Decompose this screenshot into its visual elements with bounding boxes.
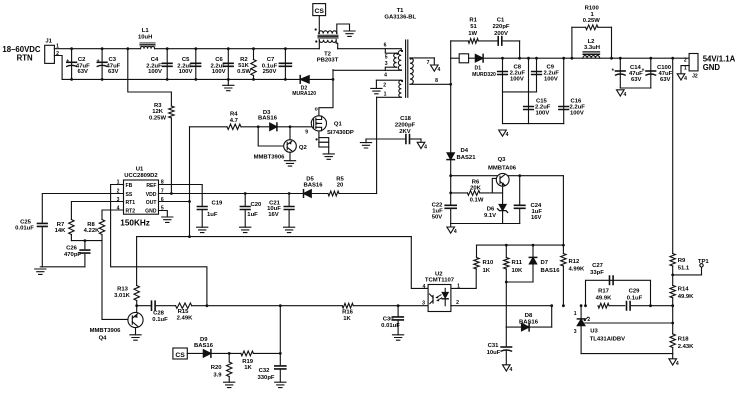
wire top input rail — [54, 48, 319, 50]
svg-text:BAS16: BAS16 — [194, 343, 214, 349]
capacitor C26 — [64, 241, 90, 267]
svg-text:20: 20 — [337, 183, 344, 189]
svg-text:C1: C1 — [497, 18, 505, 24]
transistor Q4 MMBT3906 — [90, 306, 143, 342]
test point TP1 — [671, 259, 709, 276]
svg-text:C27: C27 — [592, 263, 604, 269]
ground at T2 winding — [344, 31, 355, 36]
svg-text:49.9K: 49.9K — [596, 296, 612, 302]
svg-text:3: 3 — [574, 329, 577, 335]
svg-text:T1: T1 — [397, 8, 405, 14]
input label 18-60VDC RTN — [2, 45, 41, 63]
svg-text:REF: REF — [146, 183, 156, 189]
wire secondary supply line — [449, 174, 563, 177]
current-sense label CS bottom — [173, 348, 187, 359]
svg-text:1: 1 — [684, 65, 687, 71]
diode D7 BAS16 — [529, 245, 560, 282]
svg-text:R14: R14 — [678, 287, 690, 293]
ground at C21 — [284, 227, 295, 232]
ground at Q1 source — [323, 154, 334, 159]
shunt regulator U3 TL431AIDBV — [574, 304, 625, 353]
svg-text:1uF: 1uF — [207, 212, 218, 218]
wire R11 D7 bottoms — [505, 281, 533, 328]
svg-text:SI7430DP: SI7430DP — [327, 130, 354, 136]
resistor R18 — [670, 306, 694, 354]
svg-text:R100: R100 — [585, 6, 600, 12]
wire OUT to gate line — [190, 127, 228, 237]
capacitor C9 — [503, 57, 560, 92]
wire bottom return rail — [62, 78, 333, 80]
svg-text:R3: R3 — [154, 103, 162, 109]
capacitor C6 — [211, 47, 234, 81]
svg-text:D6: D6 — [487, 206, 495, 212]
current-sense label CS top — [313, 4, 326, 16]
svg-text:51.1: 51.1 — [678, 265, 690, 271]
svg-text:10uH: 10uH — [138, 35, 152, 41]
svg-text:2.2uF: 2.2uF — [535, 105, 551, 111]
diode D1 MURD320 — [451, 54, 689, 78]
ground at C32 — [275, 382, 286, 387]
svg-text:Q4: Q4 — [99, 336, 108, 342]
transformer T2 PB203T — [315, 24, 350, 64]
resistor R10 — [474, 245, 494, 274]
MOSFET Q1 SI7430DP — [311, 70, 354, 136]
svg-text:16V: 16V — [531, 215, 542, 221]
svg-text:+: + — [642, 68, 645, 74]
svg-text:BAS16: BAS16 — [541, 268, 561, 274]
svg-text:BAS16: BAS16 — [304, 183, 324, 189]
wire U1 RT1 to R7 — [71, 202, 123, 220]
svg-text:0.25W: 0.25W — [583, 18, 600, 24]
output label 54V/1.1A GND — [703, 55, 736, 73]
svg-text:4: 4 — [506, 132, 509, 138]
resistor R19 — [241, 351, 282, 371]
capacitor C31 — [487, 327, 512, 365]
svg-text:D1: D1 — [475, 65, 482, 71]
T1 secondary winding — [410, 58, 451, 85]
svg-text:C7: C7 — [267, 57, 275, 63]
svg-text:5: 5 — [385, 55, 388, 61]
resistor R4 — [227, 112, 241, 130]
ground net4 at J2 — [677, 74, 687, 82]
svg-text:51: 51 — [470, 24, 477, 30]
svg-text:BAS16: BAS16 — [258, 116, 278, 122]
svg-text:1K: 1K — [244, 365, 252, 371]
ground at R20 — [224, 382, 235, 387]
svg-text:3.3uH: 3.3uH — [584, 45, 600, 51]
wire D3 to Q1 gate — [277, 127, 312, 136]
svg-text:C31: C31 — [488, 343, 500, 349]
wire TL431 anode return — [581, 353, 673, 355]
svg-text:TL431AIDBV: TL431AIDBV — [590, 336, 625, 342]
svg-text:330pF: 330pF — [257, 375, 274, 381]
diode D8 BAS16 — [506, 304, 553, 331]
svg-text:1uF: 1uF — [247, 212, 258, 218]
resistor R6 — [449, 176, 502, 204]
capacitor C2 — [66, 47, 90, 81]
capacitor C19 — [197, 201, 223, 228]
svg-text:51K: 51K — [238, 63, 250, 69]
ground net4 at C18 right — [417, 139, 427, 150]
svg-text:4.99K: 4.99K — [569, 266, 585, 272]
svg-text:1uF: 1uF — [432, 208, 443, 214]
resistor R5 — [311, 176, 376, 196]
capacitor C7 — [262, 47, 292, 81]
wire U1 REF to C19 — [159, 185, 203, 207]
svg-text:U3: U3 — [590, 329, 598, 335]
svg-text:0.01uF: 0.01uF — [381, 323, 400, 329]
capacitor C18 — [366, 116, 421, 144]
svg-text:R8: R8 — [87, 222, 95, 228]
svg-text:C26: C26 — [66, 245, 78, 251]
wire primary ground bus — [40, 266, 85, 268]
svg-text:U1: U1 — [136, 166, 144, 172]
svg-text:9.1V: 9.1V — [484, 213, 496, 219]
ground at U1 GND — [162, 217, 173, 222]
svg-text:1: 1 — [384, 92, 387, 98]
ground at C19 — [197, 227, 208, 232]
resistor R9 — [670, 254, 690, 286]
svg-text:4: 4 — [623, 92, 626, 98]
svg-text:100V: 100V — [536, 111, 550, 117]
capacitor C1 — [492, 18, 509, 46]
svg-text:6: 6 — [161, 197, 164, 203]
wire R17 to C29 — [609, 305, 625, 307]
svg-text:150KHz: 150KHz — [120, 219, 150, 228]
svg-text:1K: 1K — [483, 268, 491, 274]
svg-text:100V: 100V — [148, 69, 162, 75]
transistor Q2 MMBT3906 — [254, 125, 308, 160]
wire Q2 base loop — [257, 125, 284, 146]
svg-text:3.01K: 3.01K — [114, 293, 130, 299]
wire output sense drop — [671, 57, 674, 254]
wire D9 to R19 — [212, 352, 241, 355]
wire J1 pin2 to bottom rail — [54, 56, 62, 80]
wire T1 pin8 to D1 anode and D4 — [449, 58, 452, 153]
svg-text:R20: R20 — [211, 365, 223, 371]
svg-text:4: 4 — [384, 73, 387, 79]
svg-text:R16: R16 — [342, 309, 354, 315]
wire R7 R8 bottoms — [71, 239, 102, 242]
diode D4 BAS21 — [447, 148, 476, 176]
svg-text:2.43K: 2.43K — [678, 344, 694, 350]
svg-text:C6: C6 — [215, 57, 223, 63]
svg-text:10uF: 10uF — [487, 350, 501, 356]
svg-text:Q1: Q1 — [334, 121, 343, 127]
ground at C25 bus — [35, 269, 46, 274]
svg-text:1: 1 — [591, 12, 595, 18]
svg-text:D7: D7 — [541, 260, 549, 266]
svg-text:T2: T2 — [324, 51, 332, 57]
capacitor C100 — [620, 57, 672, 88]
wire secondary bias rail — [477, 244, 565, 247]
capacitor C4 — [146, 47, 172, 81]
svg-text:Q3: Q3 — [498, 157, 507, 163]
svg-text:12K: 12K — [152, 109, 164, 115]
resistor R20 — [211, 353, 232, 382]
svg-text:R11: R11 — [512, 260, 523, 266]
wire TL431 ref to divider — [585, 322, 674, 325]
capacitor C32 — [257, 353, 285, 382]
ground at Q2 — [284, 161, 295, 166]
svg-text:3: 3 — [385, 61, 388, 67]
svg-text:VDD: VDD — [146, 192, 157, 198]
wire U1 SS to C25 — [42, 194, 123, 223]
svg-text:MMBT3906: MMBT3906 — [90, 328, 121, 334]
capacitor C20 — [240, 192, 262, 227]
svg-text:R10: R10 — [483, 260, 495, 266]
svg-text:100V: 100V — [212, 69, 226, 75]
capacitor C14 — [611, 57, 643, 88]
svg-text:+: + — [66, 59, 69, 65]
svg-text:C16: C16 — [571, 98, 583, 104]
svg-text:49.9K: 49.9K — [678, 294, 694, 300]
svg-text:C32: C32 — [259, 368, 271, 374]
svg-text:R17: R17 — [598, 288, 610, 294]
capacitor C24 — [515, 176, 543, 224]
svg-text:2: 2 — [383, 82, 386, 88]
svg-text:9: 9 — [305, 130, 308, 136]
T2 primary sense winding at Q1 source — [316, 131, 329, 154]
svg-text:C29: C29 — [629, 288, 641, 294]
svg-text:4: 4 — [509, 367, 512, 373]
T1 aux winding pins 2 1 — [376, 80, 403, 98]
resistor R1 — [468, 18, 478, 44]
svg-text:BAS21: BAS21 — [457, 155, 477, 161]
resistor R3 — [149, 103, 174, 195]
svg-text:2: 2 — [587, 317, 590, 323]
svg-text:RT2: RT2 — [126, 208, 136, 214]
wire CS node to FB line — [279, 306, 281, 354]
svg-text:33pF: 33pF — [590, 270, 604, 276]
resistor R8 — [84, 220, 105, 241]
svg-text:3: 3 — [117, 197, 120, 203]
resistor R13 — [114, 286, 139, 308]
svg-text:1: 1 — [574, 311, 577, 317]
svg-text:4: 4 — [437, 67, 440, 73]
svg-text:0.25W: 0.25W — [149, 115, 166, 121]
svg-text:SS: SS — [126, 192, 133, 198]
diode D2 MURA120 — [292, 76, 316, 97]
capacitor C16 — [503, 57, 586, 124]
ground net4 below C8 — [499, 130, 509, 138]
ground primary at C6 — [223, 79, 234, 90]
svg-text:4: 4 — [117, 206, 120, 212]
svg-text:100V: 100V — [570, 111, 584, 117]
svg-text:MMBTA06: MMBTA06 — [488, 165, 517, 171]
capacitor C21 — [267, 192, 294, 227]
optocoupler U2 TCMT1107 — [422, 271, 460, 311]
svg-text:4: 4 — [454, 229, 457, 235]
svg-text:16V: 16V — [268, 212, 279, 218]
svg-text:UCC2809D2: UCC2809D2 — [124, 173, 158, 179]
resistor R100 — [571, 6, 613, 60]
wire R3 startup feed from top rail — [126, 47, 171, 106]
svg-text:PB203T: PB203T — [317, 58, 339, 64]
ground at Q4 — [130, 335, 141, 340]
zener D6 9.1V — [484, 204, 508, 223]
svg-text:+: + — [611, 67, 614, 73]
svg-text:200V: 200V — [494, 31, 508, 37]
svg-text:R13: R13 — [117, 286, 129, 292]
svg-text:o: o — [315, 107, 318, 113]
svg-text:GND: GND — [145, 208, 157, 214]
wire U1 GND pin5 — [159, 211, 168, 218]
svg-text:C20: C20 — [251, 202, 263, 208]
svg-text:250V: 250V — [263, 69, 277, 75]
wire ramp to R13 — [136, 237, 138, 286]
svg-text:R6: R6 — [472, 179, 480, 185]
svg-text:J1: J1 — [45, 38, 52, 44]
svg-text:GA3136-BL: GA3136-BL — [384, 15, 416, 21]
svg-text:C24: C24 — [531, 203, 543, 209]
svg-text:D9: D9 — [200, 337, 208, 343]
diode D9 BAS16 — [187, 337, 213, 357]
svg-text:MMBT3906: MMBT3906 — [254, 155, 285, 161]
wire compensation branch C27 — [584, 280, 652, 307]
svg-text:R1: R1 — [469, 18, 477, 24]
svg-text:0.1W: 0.1W — [470, 198, 484, 204]
svg-text:C4: C4 — [151, 57, 159, 63]
svg-text:3: 3 — [422, 300, 425, 306]
capacitor C5 — [177, 47, 200, 81]
wire secondary bias ground line — [451, 223, 520, 225]
svg-text:BAS16: BAS16 — [519, 320, 539, 326]
svg-text:C22: C22 — [432, 202, 444, 208]
svg-text:C19: C19 — [212, 201, 224, 207]
svg-text:14K: 14K — [55, 228, 67, 234]
wire U1 VDD line — [159, 193, 304, 195]
svg-text:C15: C15 — [536, 98, 548, 104]
svg-text:63V: 63V — [631, 77, 642, 83]
svg-text:0.5W: 0.5W — [237, 69, 251, 75]
wire R4 to D3 — [241, 126, 270, 128]
wire T1 pin1 to R5 — [376, 97, 378, 193]
inductor L2 — [583, 39, 600, 58]
svg-text:100V: 100V — [179, 69, 193, 75]
svg-text:R19: R19 — [242, 359, 254, 365]
svg-text:4: 4 — [422, 284, 425, 290]
svg-text:1K: 1K — [343, 316, 351, 322]
svg-text:R12: R12 — [569, 259, 581, 265]
svg-text:4: 4 — [676, 361, 679, 367]
transformer T1 GA3136-BL — [333, 8, 417, 97]
svg-text:R15: R15 — [178, 309, 190, 315]
svg-text:RT1: RT1 — [126, 200, 136, 206]
resistor R7 — [55, 220, 75, 241]
svg-text:R5: R5 — [336, 176, 344, 182]
svg-text:2.2uF: 2.2uF — [570, 105, 586, 111]
svg-text:GND: GND — [703, 63, 721, 72]
svg-text:R7: R7 — [57, 222, 65, 228]
capacitor C3 — [97, 47, 121, 81]
svg-text:C5: C5 — [182, 57, 190, 63]
resistor R11 — [504, 245, 523, 282]
svg-text:100V: 100V — [544, 76, 558, 82]
svg-text:63V: 63V — [77, 69, 88, 75]
svg-text:0.1uF: 0.1uF — [152, 317, 168, 323]
connector J1 — [45, 38, 59, 63]
svg-text:C18: C18 — [400, 116, 412, 122]
ground at C30 — [393, 335, 404, 340]
wire snubber branch — [451, 41, 521, 60]
capacitor C25 — [15, 219, 47, 266]
svg-text:2200pF: 2200pF — [395, 123, 416, 129]
svg-text:63V: 63V — [108, 69, 119, 75]
wire CS to T2 — [318, 16, 320, 34]
svg-text:MURA120: MURA120 — [292, 91, 316, 97]
svg-text:D8: D8 — [525, 313, 533, 319]
svg-text:MURD320: MURD320 — [472, 72, 496, 78]
capacitor C30 — [381, 306, 403, 335]
inductor L1 — [138, 28, 155, 49]
resistor R14 — [670, 285, 694, 307]
ground net4 at R18 — [669, 354, 679, 367]
svg-text:470pF: 470pF — [64, 252, 81, 258]
svg-text:RTN: RTN — [17, 53, 33, 62]
transistor Q3 MMBTA06 — [488, 157, 517, 204]
svg-text:8: 8 — [435, 78, 438, 84]
svg-text:0.01uF: 0.01uF — [15, 226, 34, 232]
svg-text:R4: R4 — [230, 112, 238, 118]
resistor R16 — [342, 303, 428, 322]
wire opto anode pin1 to R10 — [451, 269, 476, 288]
svg-text:7: 7 — [427, 60, 430, 66]
resistor R2 — [237, 47, 256, 81]
svg-text:4.22K: 4.22K — [84, 228, 100, 234]
svg-text:R18: R18 — [678, 337, 690, 343]
svg-text:CS: CS — [314, 8, 324, 15]
ground at C18 left — [360, 139, 371, 148]
capacitor C28 — [137, 301, 176, 323]
svg-text:CS: CS — [175, 352, 185, 359]
svg-text:J2: J2 — [692, 74, 698, 80]
svg-text:C25: C25 — [20, 219, 32, 225]
svg-text:100V: 100V — [510, 76, 524, 82]
svg-text:4.7: 4.7 — [230, 118, 239, 124]
svg-text:U2: U2 — [435, 271, 443, 277]
svg-text:4: 4 — [424, 144, 427, 150]
capacitor C15 — [524, 57, 551, 124]
diode D3 BAS16 — [258, 110, 278, 131]
svg-text:D5: D5 — [306, 176, 314, 182]
wire OUT ramp line — [137, 200, 412, 238]
wire R8 bottom to Q4 base — [102, 241, 128, 320]
resistor R17 — [596, 288, 612, 308]
svg-text:63V: 63V — [660, 77, 671, 83]
svg-text:50V: 50V — [432, 215, 443, 221]
svg-text:20K: 20K — [470, 186, 482, 192]
svg-text:1uF: 1uF — [532, 209, 543, 215]
svg-text:4: 4 — [684, 76, 687, 82]
svg-text:0.1uF: 0.1uF — [627, 296, 643, 302]
ground net4 below C14 — [617, 90, 627, 98]
resistor R15 — [176, 303, 343, 321]
connector J2 — [681, 54, 698, 80]
svg-text:2.49K: 2.49K — [177, 315, 193, 321]
svg-text:+: + — [97, 59, 100, 65]
svg-text:1W: 1W — [468, 31, 477, 37]
capacitor C29 — [627, 288, 673, 310]
svg-text:C28: C28 — [153, 311, 165, 317]
ground net4 at C22 — [447, 224, 457, 236]
ground net4 at C31 — [503, 365, 513, 373]
svg-text:TCMT1107: TCMT1107 — [425, 278, 455, 284]
diode D5 BAS16 — [304, 176, 324, 197]
resistor R12 — [561, 176, 585, 307]
wire opto emitter pin2 line — [451, 305, 552, 307]
svg-text:OUT: OUT — [146, 200, 158, 206]
